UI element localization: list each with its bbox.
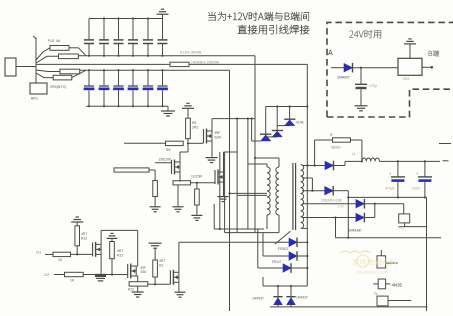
- wire bus2 right: [189, 63, 307, 65]
- wire D11 anode: [263, 255, 289, 257]
- resistor R3: [60, 69, 80, 74]
- ground G9 inv: [107, 237, 118, 239]
- wire v 219.8: [219, 152, 221, 229]
- svg-text:470μ: 470μ: [369, 84, 377, 88]
- wire Q4 source: [100, 254, 102, 273]
- wire R13 stem: [111, 259, 113, 275]
- label title line2: [238, 25, 310, 34]
- wire R14 out: [83, 274, 128, 276]
- ground G4: [173, 206, 184, 208]
- ground top cap bank: [162, 15, 164, 19]
- svg-text:150(1W): 150(1W): [159, 158, 172, 162]
- ground G3: [206, 157, 218, 159]
- resistor R5: [186, 118, 191, 139]
- ground G8: [71, 221, 83, 223]
- wire R7 out: [149, 169, 155, 171]
- transformer T1 primary w2: [278, 158, 280, 167]
- svg-text:FU1 4A: FU1 4A: [48, 39, 61, 43]
- diode D13 1N4937: [274, 298, 282, 305]
- wire v 247.9: [247, 119, 249, 229]
- wire G1 in: [45, 253, 53, 255]
- capacitor CE3: [118, 70, 120, 85]
- ground G12: [175, 291, 186, 293]
- svg-text:4R7: 4R7: [117, 249, 123, 253]
- bridge BR1: [30, 83, 47, 94]
- transistor Q1: [203, 129, 205, 143]
- wire bus3 drop v1: [229, 70, 231, 311]
- transistor Q2: [171, 160, 173, 174]
- svg-text:1N4937: 1N4937: [252, 297, 264, 301]
- dashed box 24V: [327, 22, 453, 117]
- capacitor C4: [132, 19, 134, 40]
- resistor R14: [65, 272, 84, 276]
- capacitor C5: [147, 19, 149, 40]
- svg-text:L1: L1: [352, 152, 356, 156]
- wire U2 bottom: [404, 223, 406, 227]
- wire Q5 source: [136, 275, 138, 277]
- wire R5 to gate: [187, 139, 189, 144]
- label title line1: [208, 12, 309, 21]
- wire G2 in: [54, 274, 65, 276]
- wire R9 to Q3 gate: [191, 182, 216, 184]
- diode D19: [356, 213, 365, 221]
- wire Q3 source: [223, 182, 225, 196]
- wire row3: [148, 283, 171, 285]
- ground G10: [132, 291, 144, 293]
- transistor Q4: [92, 242, 94, 256]
- resistor R15: [129, 282, 148, 286]
- svg-text:R22: R22: [128, 288, 134, 292]
- capacitor CE2: [103, 70, 105, 85]
- wire gate feed left: [124, 142, 166, 144]
- svg-text:1N4148: 1N4148: [348, 229, 361, 233]
- resistor R4: [53, 75, 72, 80]
- wire chain feed: [251, 119, 253, 141]
- transformer T1 primary w1: [266, 164, 268, 167]
- label watermark: [353, 259, 397, 266]
- svg-text:6.8K: 6.8K: [338, 205, 345, 209]
- diode D12: [283, 264, 291, 272]
- svg-text:TL: TL: [374, 292, 378, 296]
- wire Q2 drain: [179, 152, 181, 162]
- svg-text:1K: 1K: [58, 258, 63, 262]
- wire right drop: [426, 197, 428, 311]
- diode D18: [356, 200, 365, 208]
- wire v 224.6: [224, 152, 226, 233]
- svg-text:dzwxzlw.com: dzwxzlw.com: [356, 270, 389, 276]
- wire chain top: [266, 106, 308, 108]
- transformer T1 secondary: [301, 165, 304, 229]
- wire diag below T1: [275, 231, 291, 244]
- inductor L1: [345, 160, 362, 162]
- svg-text:G2: G2: [44, 272, 50, 277]
- transistor Q3: [214, 170, 216, 184]
- wire out gnd rail: [348, 196, 426, 198]
- ground G13: [355, 105, 368, 107]
- svg-text:4R7: 4R7: [81, 232, 87, 236]
- ground G1: [167, 106, 169, 111]
- wire leg D13: [277, 286, 279, 298]
- svg-text:4N35: 4N35: [392, 283, 403, 288]
- diode D11: [289, 252, 297, 260]
- ic U5: [377, 296, 388, 306]
- wire top bus: [89, 18, 163, 20]
- node junction vertical: [35, 38, 37, 83]
- svg-text:470μF: 470μF: [385, 187, 395, 191]
- resistor R6: [166, 141, 184, 145]
- wire Q1 drain: [211, 119, 213, 131]
- svg-text:630: 630: [215, 136, 221, 140]
- resistor R13: [111, 238, 113, 241]
- wire bus2 drop v3: [306, 64, 308, 286]
- wire R16 stem: [154, 277, 156, 284]
- capacitor C3: [118, 19, 120, 40]
- wire bus A (+HV top): [78, 55, 255, 57]
- resistor R7: [114, 168, 149, 172]
- svg-text:BR1: BR1: [31, 97, 38, 101]
- fuse FU1: [50, 46, 69, 51]
- opto U3 pinbox: [377, 256, 386, 268]
- wire R1 to busA diag: [78, 48, 86, 56]
- wire R17 left: [315, 139, 333, 141]
- diode D14 1N4937: [287, 298, 295, 305]
- svg-text:G1: G1: [36, 250, 42, 255]
- wire sec tap5: [302, 217, 356, 219]
- diode D9 1N4148: [289, 107, 291, 120]
- svg-text:FR302: FR302: [278, 247, 288, 251]
- capacitor C13: [360, 68, 362, 84]
- wire R15 gnd: [137, 286, 139, 292]
- wire R1 out: [69, 47, 78, 49]
- svg-text:4R7: 4R7: [159, 259, 165, 263]
- wire Q4 drain: [100, 230, 102, 244]
- resistor R bus2: [170, 62, 189, 66]
- wire D9 step: [277, 125, 289, 127]
- svg-text:R2: R2: [159, 264, 163, 268]
- wire L1 out: [380, 160, 441, 162]
- svg-text:1N4007: 1N4007: [337, 76, 350, 80]
- wire lower rail: [336, 237, 442, 239]
- wire fan to R2: [36, 56, 59, 63]
- wire D12 anode: [258, 267, 283, 269]
- wire Q2 source: [179, 172, 181, 182]
- wire D11 feed: [262, 233, 264, 256]
- transistor Q6: [169, 270, 171, 284]
- wire leg D14: [290, 286, 292, 298]
- capacitor C14: [397, 160, 399, 162]
- wire bottom rail: [263, 285, 307, 287]
- resistor R2: [59, 54, 79, 59]
- wire bottom out: [270, 306, 428, 308]
- wire pair lower: [237, 194, 267, 196]
- diode D15 1N4007: [344, 64, 353, 72]
- svg-text:1N4937: 1N4937: [296, 296, 308, 300]
- svg-text:4148: 4148: [296, 121, 304, 125]
- wire Q2 gate feed: [155, 162, 171, 164]
- wire sec tap4: [302, 203, 356, 205]
- resistor R8: [153, 181, 158, 197]
- wire D8 step: [266, 136, 278, 138]
- wire fan to R1: [36, 48, 50, 60]
- wire J1 to junction: [16, 66, 36, 68]
- diode D10 FR302: [289, 238, 297, 246]
- wire bus3: [80, 69, 230, 71]
- ground G2: [182, 107, 194, 109]
- wire stub right: [439, 143, 451, 145]
- capacitor C6: [162, 19, 164, 40]
- svg-text:200V: 200V: [412, 187, 421, 191]
- wire v2 251.6: [251, 118, 253, 120]
- wire A to D15: [331, 67, 344, 69]
- diode D8 1N4148: [276, 107, 278, 131]
- node B: [429, 50, 439, 56]
- wire R17 right: [351, 139, 362, 141]
- transistor Q5: [127, 264, 129, 278]
- svg-text:D1-D4 1N5408: D1-D4 1N5408: [180, 51, 201, 55]
- svg-text:1K: 1K: [70, 279, 75, 283]
- wire Q5 drain: [136, 265, 138, 267]
- wire pair upper: [230, 192, 268, 194]
- svg-text:IRF: IRF: [215, 131, 222, 135]
- ground G7: [218, 196, 229, 198]
- capacitor CE6: [162, 70, 164, 85]
- svg-text:R22: R22: [81, 237, 87, 241]
- wire tap2 drop: [302, 177, 312, 179]
- ground G6: [154, 197, 156, 207]
- ground G14 inv: [404, 43, 416, 45]
- ic U2 431: [399, 214, 410, 223]
- capacitor C2: [103, 19, 105, 40]
- svg-text:R22: R22: [117, 254, 123, 258]
- wire R4 out diag: [72, 70, 86, 77]
- wire bus2 left: [36, 63, 170, 65]
- label watermark2: [340, 251, 370, 253]
- transformer T1 core2: [292, 163, 294, 230]
- resistor R10: [195, 189, 200, 205]
- wire D17 drop: [347, 191, 349, 238]
- svg-text:103(2KV) 6.8K: 103(2KV) 6.8K: [321, 199, 343, 203]
- svg-text:630: 630: [141, 270, 147, 274]
- svg-text:2R2: 2R2: [192, 126, 198, 130]
- label 24V: [349, 30, 381, 38]
- svg-text:431: 431: [398, 226, 404, 230]
- wire D10 anode: [179, 241, 289, 243]
- svg-text:R5: R5: [192, 121, 196, 125]
- capacitor C15: [424, 160, 426, 162]
- diode D7 1N4148: [265, 107, 267, 135]
- wire prim bottom 2: [225, 232, 279, 234]
- wire D15 out: [353, 67, 399, 69]
- resistor R11: [53, 252, 71, 256]
- resistor R12: [76, 222, 78, 226]
- capacitor CE1: [88, 70, 90, 85]
- wire Q3 drain: [223, 152, 225, 172]
- capacitor CE4: [132, 70, 134, 85]
- resistor R16: [154, 248, 156, 260]
- resistor R17 snubber: [333, 138, 351, 142]
- wire U1 gnd: [409, 44, 411, 58]
- wire bus A drop: [254, 56, 256, 233]
- wire bottom cap bus: [86, 105, 168, 107]
- svg-text:2R5(NTC): 2R5(NTC): [50, 85, 66, 89]
- opto U4 4N35: [378, 279, 385, 289]
- wire prim bottom 1: [214, 228, 264, 230]
- svg-text:7824: 7824: [402, 77, 410, 81]
- wire U1 out: [422, 66, 432, 68]
- svg-text:FR107: FR107: [272, 260, 282, 264]
- svg-text:SB560: SB560: [331, 146, 341, 150]
- resistor R9: [173, 181, 191, 185]
- wire sec bottom: [302, 227, 307, 229]
- wire fan to R3: [36, 70, 60, 72]
- wire R9 gnd stem: [177, 185, 179, 207]
- diode D16: [302, 165, 325, 167]
- regulator U1: [398, 58, 422, 75]
- capacitor C1: [88, 19, 90, 40]
- ground G5: [196, 205, 198, 215]
- wire T1 p1 top lead: [248, 163, 267, 165]
- wire Q6 drain: [178, 242, 180, 272]
- ground G11: [149, 242, 162, 244]
- capacitor CE5: [147, 70, 149, 85]
- wire v 237.1: [236, 119, 238, 233]
- svg-text:A: A: [328, 50, 333, 57]
- wire v 214.2: [213, 204, 215, 229]
- wire R10 top: [196, 183, 198, 189]
- svg-text:12/15R: 12/15R: [191, 175, 202, 179]
- wire R11 out: [71, 253, 93, 255]
- wire Q6 source: [178, 282, 180, 292]
- wire T1 p2 top lead: [255, 157, 279, 159]
- wire fan to R4: [36, 73, 53, 78]
- wire R12 stem: [76, 246, 78, 255]
- junction bold bar: [95, 274, 106, 277]
- svg-text:R6: R6: [166, 148, 170, 152]
- wire Q1 source: [211, 141, 213, 157]
- connector J1: [5, 58, 16, 76]
- diode D17: [302, 190, 325, 192]
